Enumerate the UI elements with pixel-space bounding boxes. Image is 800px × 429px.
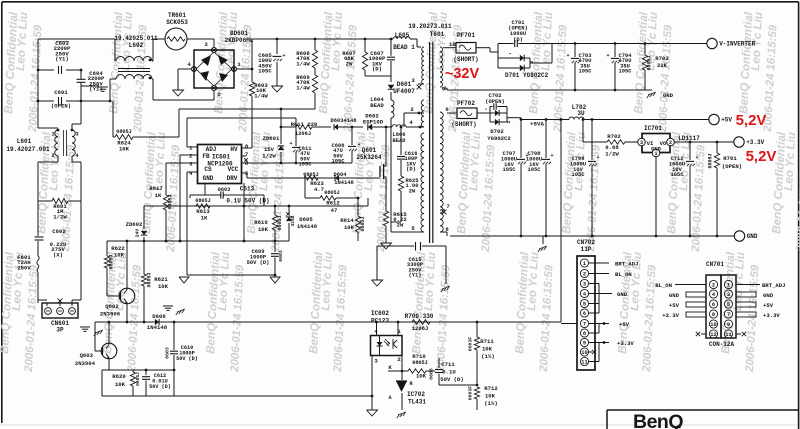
- bus GND left: [686, 292, 706, 297]
- wire 32V rail: [537, 43, 707, 45]
- svg-text:105C: 105C: [299, 162, 313, 168]
- wire pin8 HV: [242, 147, 253, 149]
- svg-text:0805J: 0805J: [412, 360, 428, 366]
- svg-text:+: +: [550, 153, 553, 159]
- wire long rail 396: [186, 395, 372, 397]
- capacitor C605: [276, 39, 278, 54]
- svg-text:2: 2: [712, 283, 715, 289]
- wire nc pins: [701, 333, 706, 335]
- svg-text:C613: C613: [240, 186, 255, 193]
- diode D601: [390, 76, 392, 82]
- svg-text:0805J: 0805J: [135, 372, 141, 386]
- capacitor C711: [426, 370, 435, 372]
- svg-text:+: +: [289, 141, 292, 147]
- svg-text:YG902C2: YG902C2: [523, 72, 549, 79]
- capacitor C703: [574, 42, 577, 45]
- svg-text:2N3904: 2N3904: [75, 360, 96, 367]
- svg-text:BL_ON: BL_ON: [615, 271, 632, 278]
- svg-text:12: 12: [710, 332, 716, 338]
- svg-text:L602: L602: [129, 42, 144, 49]
- svg-text:0.1U: 0.1U: [442, 369, 455, 376]
- svg-text:D604: D604: [334, 172, 348, 178]
- svg-text:1/2W: 1/2W: [262, 153, 276, 160]
- svg-text:1206J: 1206J: [295, 131, 311, 137]
- diode D605: [288, 205, 291, 208]
- wire +3.3V: [674, 141, 733, 143]
- svg-text:+: +: [357, 142, 360, 148]
- wire GND pin down: [204, 184, 206, 195]
- svg-text:7: 7: [583, 322, 586, 328]
- wire: [80, 70, 82, 79]
- svg-text:1/4W: 1/4W: [296, 84, 310, 91]
- svg-text:T601: T601: [430, 31, 445, 38]
- svg-text:CON-12A: CON-12A: [709, 341, 735, 348]
- svg-text:105C: 105C: [503, 167, 517, 173]
- wire: [365, 75, 391, 77]
- resistor R617: [165, 163, 167, 195]
- svg-text:PF701: PF701: [457, 32, 475, 39]
- secondary winding: [440, 47, 443, 87]
- svg-text:47: 47: [331, 207, 338, 214]
- svg-text:CN701: CN701: [706, 261, 724, 268]
- svg-text:0805J: 0805J: [277, 215, 283, 230]
- wire left loop: [57, 156, 59, 162]
- svg-text:R612: R612: [326, 200, 340, 207]
- zener ZD602: [143, 206, 145, 229]
- capacitor C707: [520, 118, 523, 121]
- capacitor C603: [38, 69, 54, 71]
- capacitor C712: [689, 141, 692, 144]
- svg-text:Q602: Q602: [105, 303, 119, 310]
- svg-text:V-INVERTER: V-INVERTER: [719, 41, 755, 48]
- wire top rail: [38, 38, 115, 40]
- svg-text:7: 7: [245, 151, 248, 158]
- svg-text:0805J: 0805J: [708, 153, 714, 168]
- svg-text:105C: 105C: [572, 172, 586, 178]
- svg-text:4148: 4148: [290, 215, 296, 226]
- capacitor C704: [614, 42, 617, 45]
- svg-text:Q601: Q601: [362, 147, 377, 154]
- svg-text:R614: R614: [340, 217, 354, 224]
- svg-text:L605: L605: [395, 32, 410, 39]
- ground: [381, 243, 392, 249]
- resistor R701: [716, 141, 719, 144]
- resistor R608: [314, 38, 317, 41]
- svg-text:C711: C711: [441, 361, 455, 368]
- svg-text:0603: 0603: [218, 187, 230, 193]
- resistor R615: [383, 211, 388, 226]
- wire snubber return: [390, 127, 392, 222]
- resistor R607: [364, 38, 367, 41]
- wire pin2: [180, 154, 198, 156]
- svg-text:10K: 10K: [158, 283, 169, 290]
- svg-text:2KBP06ML: 2KBP06ML: [225, 37, 254, 44]
- thermistor TR601: [153, 38, 165, 40]
- svg-text:5: 5: [583, 302, 586, 308]
- svg-text:0603F: 0603F: [468, 337, 474, 352]
- svg-text:IC601: IC601: [212, 154, 230, 161]
- svg-text:D603: D603: [331, 118, 344, 124]
- wire reg input: [582, 120, 584, 143]
- svg-text:5,2V: 5,2V: [746, 148, 777, 165]
- capacitor C611: [295, 118, 297, 146]
- svg-text:5,2V: 5,2V: [736, 112, 767, 129]
- svg-text:+: +: [606, 53, 609, 59]
- wire: [243, 183, 245, 241]
- ground: [177, 309, 185, 312]
- svg-text:+5V: +5V: [619, 321, 630, 328]
- svg-text:0805J: 0805J: [195, 198, 211, 204]
- svg-text:BEAD: BEAD: [393, 138, 407, 144]
- svg-text:-: -: [484, 106, 488, 113]
- svg-text:+: +: [596, 155, 599, 161]
- svg-text:VCC: VCC: [228, 166, 239, 173]
- svg-text:GND: GND: [663, 92, 674, 99]
- svg-text:C602: C602: [52, 228, 66, 235]
- svg-text:+5V: +5V: [721, 117, 732, 124]
- svg-text:8: 8: [583, 331, 586, 337]
- resistor R625: [398, 176, 403, 191]
- wire BRT_ADJ: [736, 284, 760, 286]
- svg-text:11: 11: [581, 360, 587, 366]
- svg-text:+3.3V: +3.3V: [746, 139, 764, 146]
- wire long rail 322: [95, 321, 561, 323]
- svg-text:6: 6: [583, 311, 586, 317]
- svg-text:24V: 24V: [135, 229, 141, 238]
- capacitor C604: [77, 78, 86, 80]
- svg-text:~32V: ~32V: [445, 66, 480, 82]
- wire pin7 nc: [242, 155, 247, 157]
- capacitor C616 snubber: [400, 126, 403, 129]
- svg-text:IC702: IC702: [407, 391, 425, 398]
- svg-text:UF4007: UF4007: [393, 88, 415, 95]
- ground: [272, 86, 283, 92]
- capacitor C601: [38, 100, 54, 102]
- capacitor C612: [145, 370, 147, 375]
- bus +3.3V right: [736, 312, 756, 317]
- svg-text:R617: R617: [149, 185, 162, 192]
- resistor R609: [314, 68, 316, 75]
- transistor Q603: [101, 343, 117, 359]
- svg-text:11P: 11P: [581, 246, 592, 253]
- svg-text:2: 2: [583, 272, 586, 278]
- svg-text:10K: 10K: [416, 373, 427, 380]
- shunt IC702 TL431: [396, 381, 407, 392]
- terminal GND: [734, 231, 744, 241]
- svg-text:+: +: [566, 53, 569, 59]
- svg-text:BL_ON: BL_ON: [655, 282, 672, 289]
- connector CN601: [37, 300, 39, 303]
- resistor R619: [274, 205, 277, 208]
- inductor L606: [392, 125, 406, 127]
- wire: [376, 322, 378, 336]
- svg-text:PC123: PC123: [371, 318, 389, 325]
- ground: [398, 412, 406, 415]
- capacitor C615: [377, 245, 414, 247]
- svg-text:1/2W: 1/2W: [53, 213, 67, 220]
- svg-text:3: 3: [727, 292, 730, 298]
- resistor R621: [141, 274, 146, 286]
- svg-text:+5VA: +5VA: [530, 121, 544, 128]
- svg-text:8: 8: [712, 312, 715, 318]
- svg-text:HV: HV: [230, 146, 238, 153]
- terminal +5V: [709, 114, 719, 124]
- svg-text:GND: GND: [203, 175, 214, 182]
- wire gnd rail: [450, 235, 734, 237]
- svg-text:+3.3V: +3.3V: [763, 312, 780, 319]
- svg-text:10K: 10K: [119, 146, 130, 153]
- svg-text:2: 2: [51, 153, 54, 159]
- svg-text:4148: 4148: [344, 118, 357, 124]
- svg-text:R619: R619: [254, 219, 268, 226]
- svg-text:BRT_ADJ: BRT_ADJ: [762, 282, 786, 289]
- zener ZD601: [280, 109, 282, 127]
- resistor R712: [474, 387, 479, 399]
- resistor R611: [280, 126, 283, 129]
- wire CS line: [186, 172, 188, 275]
- svg-text:FB: FB: [202, 153, 210, 160]
- svg-text:11: 11: [725, 332, 731, 338]
- svg-text:1: 1: [727, 283, 730, 289]
- svg-text:105C: 105C: [579, 69, 593, 75]
- capacitor C613: [190, 194, 221, 196]
- svg-text:(1%): (1%): [481, 353, 494, 360]
- svg-text:1K: 1K: [201, 215, 208, 222]
- svg-text:DRV: DRV: [227, 175, 238, 182]
- svg-text:GND: GND: [747, 233, 758, 240]
- svg-text:(1%): (1%): [484, 400, 497, 407]
- wire bridge bottom: [213, 91, 215, 100]
- svg-text:1N4148: 1N4148: [147, 324, 168, 331]
- wire main HV rail: [251, 39, 253, 69]
- svg-text:19.42025.011: 19.42025.011: [114, 35, 158, 42]
- svg-text:0805J: 0805J: [147, 272, 153, 287]
- wire pin4: [406, 126, 424, 128]
- svg-text:25K3264: 25K3264: [356, 154, 382, 161]
- wire bridge left to ground: [178, 68, 191, 70]
- svg-text:2: 2: [669, 140, 672, 146]
- svg-text:(D): (D): [406, 167, 416, 173]
- wire pin1: [187, 146, 198, 148]
- svg-text:R620: R620: [112, 373, 126, 380]
- svg-text:(SHORT): (SHORT): [451, 121, 476, 128]
- svg-text:22K: 22K: [657, 62, 668, 69]
- resistor R614: [357, 198, 359, 216]
- svg-text:(OPEN): (OPEN): [722, 163, 742, 170]
- svg-text:CS: CS: [204, 166, 212, 173]
- svg-text:+3.3V: +3.3V: [617, 340, 634, 347]
- ground: [645, 89, 652, 91]
- resistor R620: [132, 370, 134, 372]
- svg-text:(SHORT): (SHORT): [453, 56, 478, 63]
- svg-text:+5V: +5V: [669, 302, 680, 309]
- svg-text:10K: 10K: [344, 224, 355, 231]
- svg-text:BenQ: BenQ: [633, 411, 683, 429]
- svg-text:(Y1): (Y1): [55, 56, 68, 63]
- svg-text:3: 3: [583, 282, 586, 288]
- wire bridge right: [237, 68, 252, 70]
- resistor R711: [476, 321, 479, 324]
- svg-text:50V (D): 50V (D): [440, 376, 464, 383]
- svg-text:3: 3: [640, 140, 643, 146]
- svg-text:R703: R703: [655, 55, 669, 62]
- svg-text:19.20273.011: 19.20273.011: [408, 23, 452, 30]
- svg-text:C601: C601: [54, 89, 68, 96]
- svg-text:250V: 250V: [17, 264, 31, 271]
- ground: [173, 90, 184, 96]
- svg-text:ADJ: ADJ: [206, 146, 217, 153]
- svg-text:R621: R621: [154, 276, 168, 283]
- svg-text:1: 1: [583, 261, 586, 267]
- svg-text:L601: L601: [17, 138, 32, 145]
- wire pin3: [166, 162, 198, 164]
- resistor R601: [38, 200, 52, 202]
- resistor R624: [113, 136, 115, 138]
- svg-text:Q603: Q603: [80, 352, 94, 359]
- terminal V-INVERTER: [707, 38, 717, 48]
- svg-text:10K: 10K: [114, 252, 125, 259]
- svg-text:2W: 2W: [346, 60, 353, 67]
- capacitor C708: [545, 118, 548, 121]
- wire pin2: [404, 112, 424, 114]
- svg-text:1K: 1K: [155, 192, 162, 199]
- svg-text:3P: 3P: [56, 327, 64, 334]
- svg-text:0805J: 0805J: [116, 129, 132, 135]
- wire: [401, 356, 403, 372]
- svg-text:0805J: 0805J: [109, 254, 115, 269]
- BenQ logo: [607, 409, 799, 411]
- svg-text:7: 7: [446, 203, 449, 210]
- wire BL_ON: [675, 284, 706, 286]
- svg-text:1/2W: 1/2W: [605, 151, 619, 158]
- svg-text:YG902C2: YG902C2: [487, 135, 511, 142]
- svg-text:1/4W: 1/4W: [254, 92, 268, 99]
- svg-text:1N4148: 1N4148: [334, 180, 353, 186]
- bus +5V left: [686, 302, 706, 307]
- svg-text:BEAD 1: BEAD 1: [393, 44, 415, 51]
- svg-text:0.1U 50V (D): 0.1U 50V (D): [226, 198, 269, 205]
- svg-text:R701: R701: [723, 155, 737, 162]
- svg-text:(X): (X): [53, 251, 63, 258]
- svg-text:(OPEN): (OPEN): [485, 99, 504, 105]
- wire pin3 nc: [418, 83, 424, 85]
- svg-text:0603: 0603: [429, 368, 435, 380]
- terminal +3.3V: [734, 137, 744, 147]
- fuse F601: [37, 256, 39, 272]
- svg-text:10K: 10K: [258, 226, 269, 233]
- svg-text:R702: R702: [607, 133, 621, 140]
- transformer L601: [38, 127, 58, 129]
- svg-text:105C: 105C: [332, 159, 346, 165]
- svg-text:2: 2: [506, 120, 512, 123]
- wire reg gnd: [655, 157, 657, 236]
- resistor R603: [249, 82, 254, 96]
- svg-text:IC602: IC602: [371, 310, 389, 317]
- inductor L604: [391, 100, 394, 118]
- svg-text:2W: 2W: [409, 188, 416, 194]
- wire: [440, 231, 447, 233]
- wire pin7 nc: [440, 209, 445, 211]
- ground: [372, 280, 383, 286]
- transistor Q602: [119, 288, 135, 304]
- svg-text:10K: 10K: [482, 346, 493, 353]
- svg-text:TL431: TL431: [408, 399, 426, 406]
- svg-text:3U: 3U: [577, 110, 585, 117]
- svg-text:2N3906: 2N3906: [100, 311, 121, 318]
- svg-text:7: 7: [727, 312, 730, 318]
- ground: [367, 410, 378, 416]
- svg-text:D605: D605: [299, 216, 313, 223]
- svg-text:BRT_ADJ: BRT_ADJ: [615, 261, 639, 268]
- svg-text:R711: R711: [480, 338, 494, 345]
- svg-text:GND: GND: [669, 292, 680, 299]
- svg-text:GND: GND: [617, 291, 628, 298]
- svg-text:0805J: 0805J: [360, 216, 366, 231]
- svg-text:1: 1: [51, 132, 54, 138]
- wire: [101, 370, 103, 396]
- svg-text:105C: 105C: [671, 172, 685, 178]
- ground: [95, 330, 103, 333]
- ground: [179, 277, 189, 283]
- svg-text:+: +: [282, 53, 285, 59]
- svg-text:ZD602: ZD602: [126, 221, 143, 228]
- wire vcc row: [241, 162, 243, 164]
- svg-text:GND: GND: [651, 147, 661, 153]
- svg-text:+5V: +5V: [763, 302, 774, 309]
- wire: [186, 118, 188, 147]
- svg-text:R712: R712: [484, 385, 498, 392]
- wire: [371, 356, 373, 411]
- wire rail 241: [107, 240, 289, 242]
- svg-text:6: 6: [712, 302, 715, 308]
- wire: [439, 384, 477, 386]
- svg-text:CN702: CN702: [577, 239, 595, 246]
- op-amp IC601 controller: [198, 145, 242, 184]
- svg-text:+3.3V: +3.3V: [662, 312, 679, 319]
- wire DRV: [242, 172, 248, 174]
- svg-text:105C: 105C: [619, 69, 633, 75]
- svg-text:5: 5: [727, 302, 730, 308]
- svg-text:D601: D601: [397, 81, 412, 88]
- ground: [442, 286, 450, 289]
- svg-text:R709 330: R709 330: [405, 313, 434, 320]
- svg-text:GND: GND: [763, 292, 774, 299]
- svg-text:0603: 0603: [165, 347, 171, 359]
- svg-text:0603: 0603: [278, 250, 284, 262]
- wire: [446, 88, 448, 90]
- svg-text:1N4148: 1N4148: [297, 223, 318, 230]
- wire: [560, 118, 563, 121]
- bus GND right: [736, 292, 756, 297]
- svg-text:19.42027.001: 19.42027.001: [6, 146, 50, 153]
- wire gnd rail: [187, 274, 275, 276]
- svg-text:D701: D701: [505, 72, 520, 79]
- svg-text:50V (D): 50V (D): [149, 384, 171, 390]
- capacitor C606: [351, 126, 354, 129]
- wire aux rail: [144, 205, 368, 207]
- svg-text:0603F: 0603F: [468, 386, 474, 401]
- svg-text:105C: 105C: [528, 167, 542, 173]
- ground: [163, 305, 173, 307]
- wire: [178, 109, 180, 137]
- capacitor C709: [591, 118, 594, 121]
- svg-text:EGP10D: EGP10D: [363, 119, 384, 126]
- svg-text:10: 10: [710, 322, 716, 328]
- svg-text:D702: D702: [490, 128, 504, 135]
- wire: [102, 369, 174, 371]
- svg-text:10: 10: [449, 41, 456, 48]
- svg-text:BD601: BD601: [230, 30, 248, 37]
